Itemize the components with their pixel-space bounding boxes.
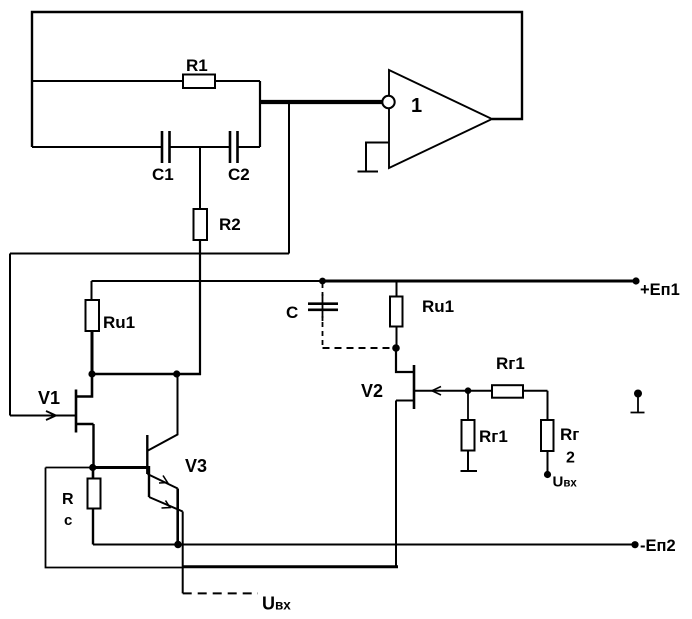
svg-text:Rг: Rг: [560, 425, 579, 444]
svg-text:Ru1: Ru1: [422, 297, 454, 316]
svg-text:C2: C2: [228, 165, 250, 184]
svg-text:C1: C1: [152, 165, 174, 184]
svg-text:Rг1: Rг1: [479, 427, 508, 446]
svg-text:V2: V2: [361, 381, 383, 401]
svg-text:V1: V1: [38, 388, 60, 408]
svg-text:R2: R2: [219, 215, 241, 234]
svg-text:+Еп1: +Еп1: [640, 281, 680, 299]
svg-text:1: 1: [411, 95, 422, 117]
svg-text:c: c: [64, 512, 72, 529]
svg-text:R1: R1: [186, 56, 208, 75]
svg-text:Ru1: Ru1: [103, 313, 135, 332]
svg-text:R: R: [62, 491, 74, 508]
svg-text:V3: V3: [185, 456, 207, 476]
svg-text:-Еп2: -Еп2: [640, 537, 676, 555]
svg-text:C: C: [286, 303, 298, 322]
svg-text:Rг1: Rг1: [496, 354, 525, 373]
svg-text:2: 2: [566, 450, 575, 467]
